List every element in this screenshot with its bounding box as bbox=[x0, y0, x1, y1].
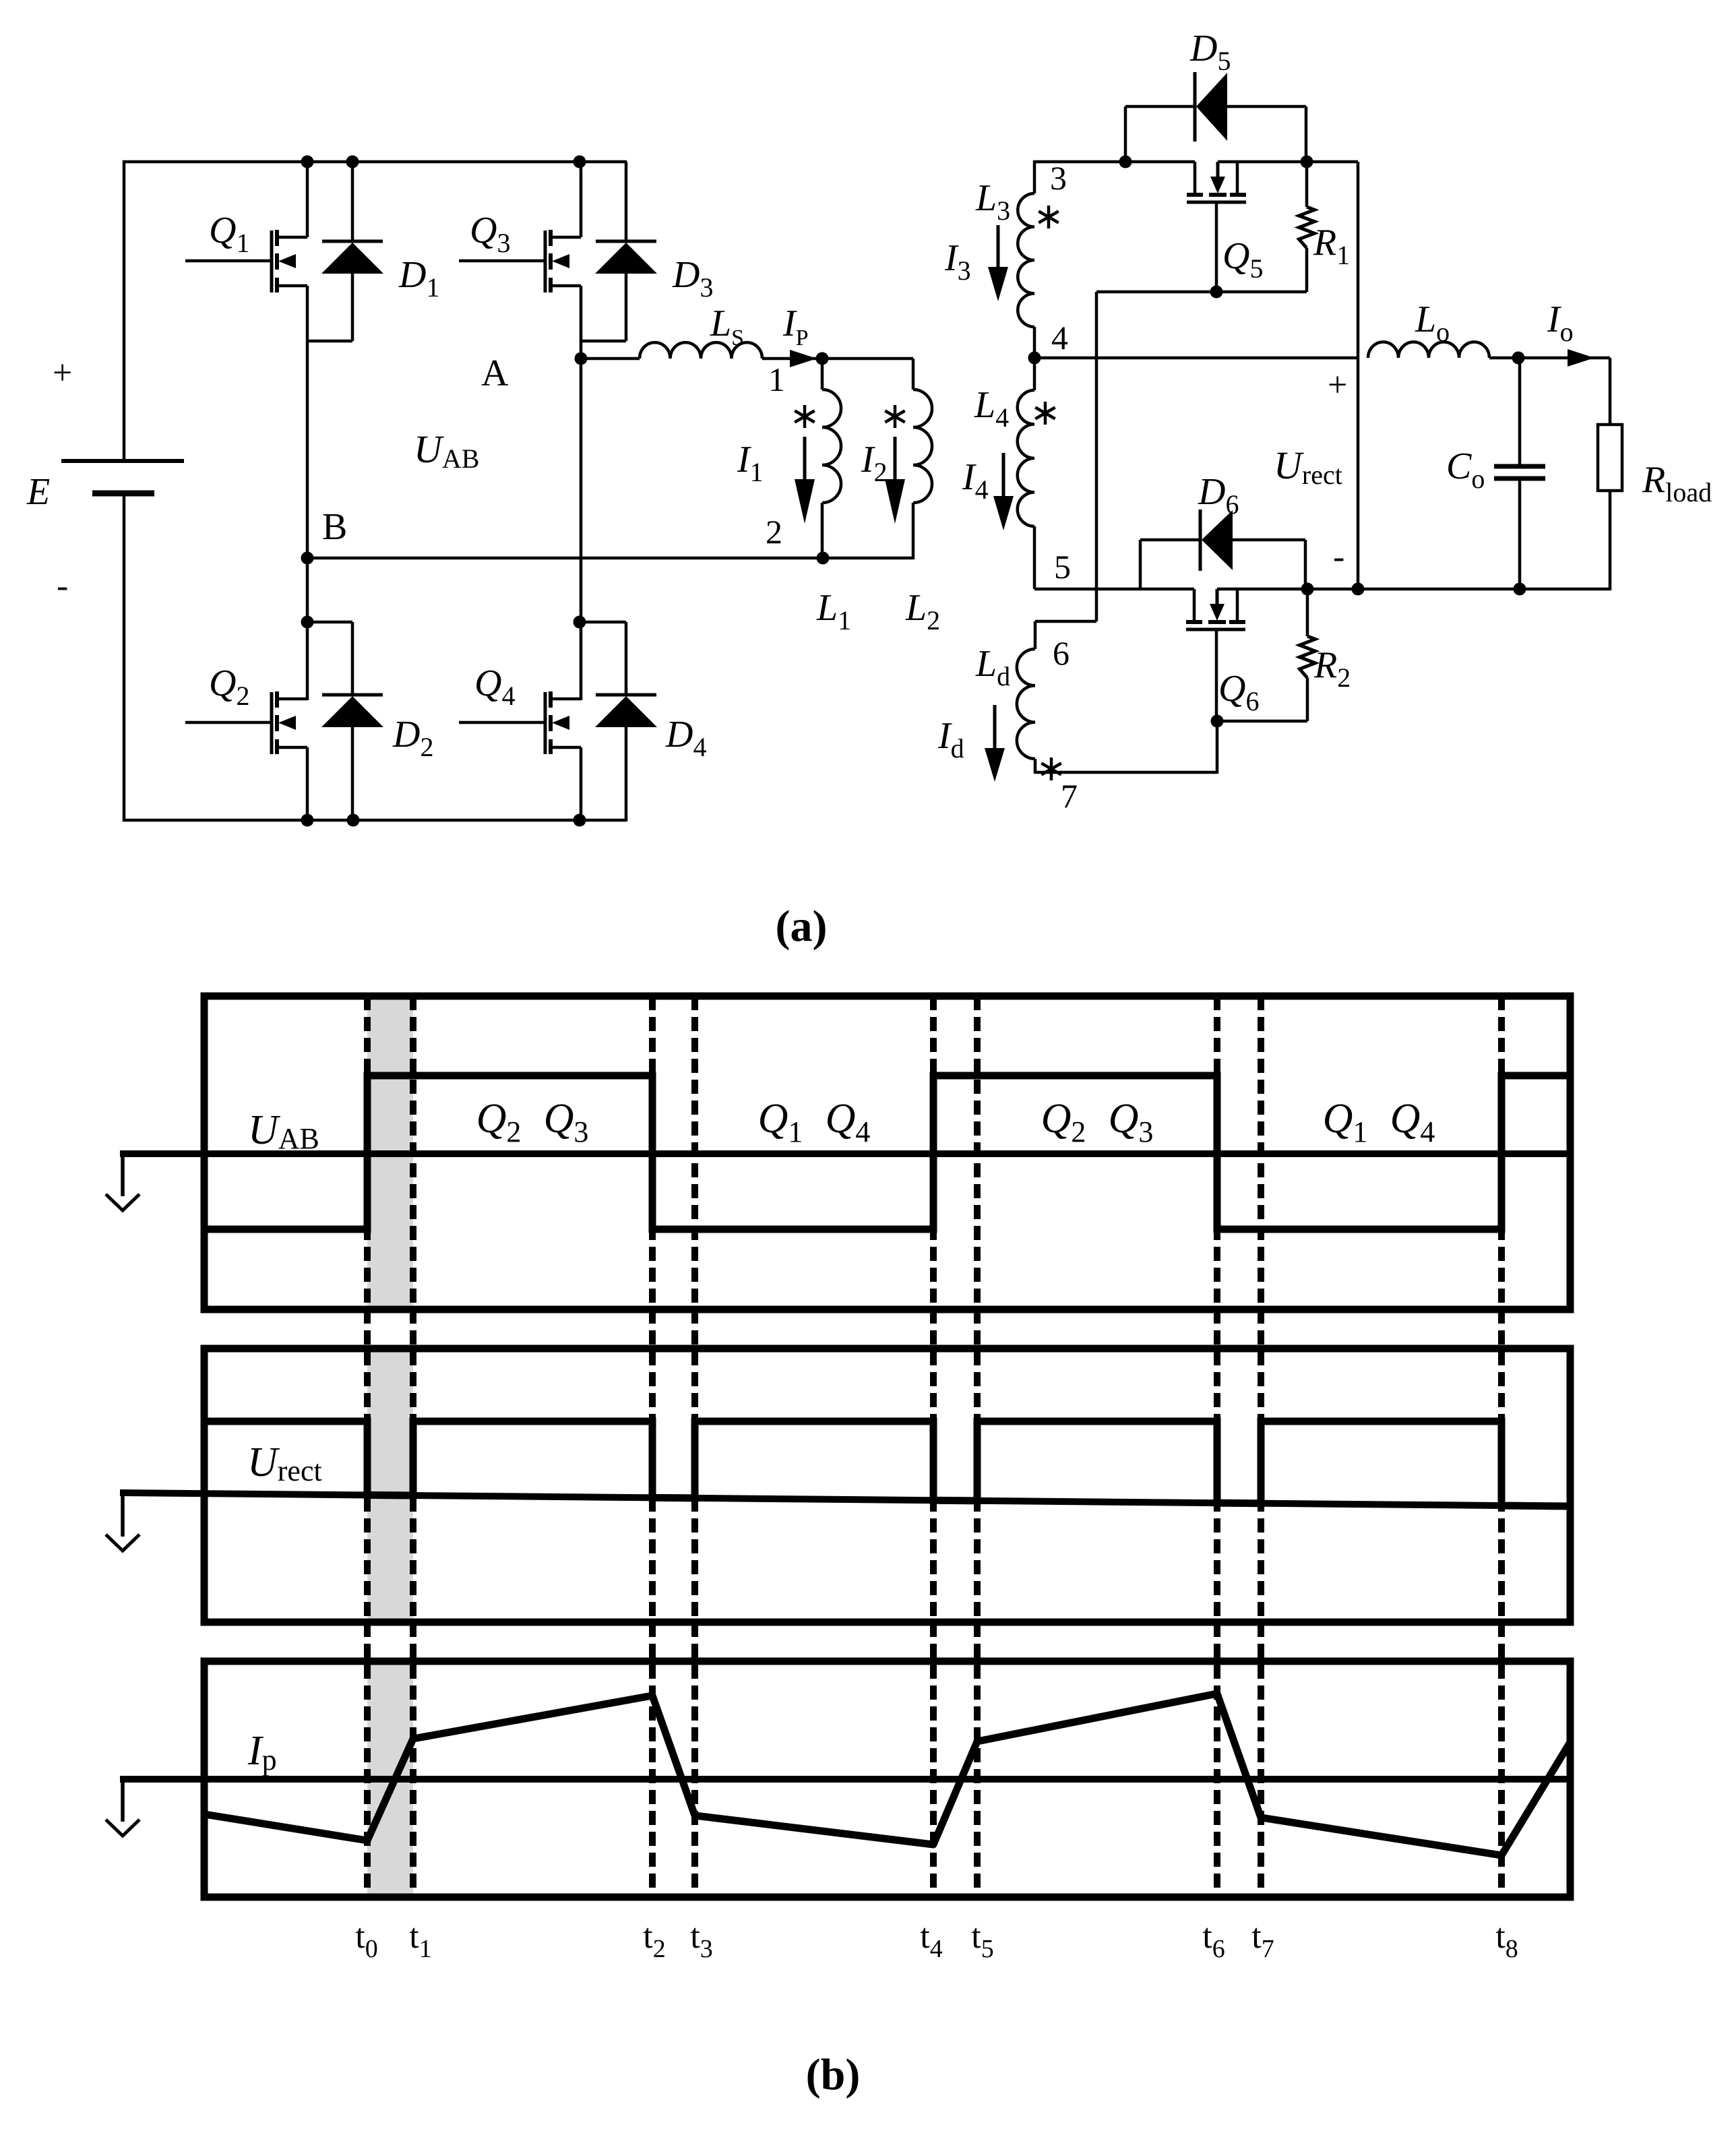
node: Co bottom junction bbox=[1514, 583, 1526, 596]
wire: Q1 drain from top rail bbox=[306, 162, 309, 237]
wire: bottom rail bbox=[123, 819, 626, 822]
waveform UAB bbox=[204, 1076, 1570, 1229]
wire: left rail bottom bbox=[123, 493, 126, 822]
node 2 bbox=[766, 513, 830, 565]
svg-text:7: 7 bbox=[1061, 777, 1078, 815]
current arrow I2 bbox=[861, 437, 905, 524]
inductor Ls bbox=[640, 303, 762, 359]
wire: Q3 source through node A down to Q4 bbox=[580, 286, 583, 700]
box UAB bbox=[204, 996, 1570, 1309]
svg-text:+: + bbox=[53, 354, 72, 392]
wire: Q2 source to bottom rail bbox=[306, 747, 309, 822]
caption (a) bbox=[776, 902, 828, 951]
svg-text:2: 2 bbox=[766, 513, 782, 551]
box Ip bbox=[204, 1661, 1570, 1897]
current arrow I3 bbox=[944, 225, 1008, 301]
dashed time grid lines t0-t8 bbox=[367, 996, 1501, 1897]
node 6 bbox=[1053, 634, 1069, 672]
wire: Q6 gate down to node 7 rail bbox=[1034, 721, 1217, 774]
wire: node A to Ls bbox=[581, 357, 640, 361]
wire: left rail top bbox=[123, 160, 126, 461]
caption (b) bbox=[806, 2050, 861, 2099]
svg-text:-: - bbox=[1333, 538, 1344, 576]
node 5 bbox=[1054, 548, 1071, 586]
polarity mark L3 bbox=[1038, 206, 1058, 228]
polarity mark Ld bbox=[1041, 757, 1061, 780]
current arrow I4 bbox=[962, 453, 1014, 530]
current arrow I1 bbox=[737, 437, 815, 524]
label UAB bbox=[414, 427, 479, 474]
diode D1 bbox=[307, 162, 439, 341]
wire: top rail bbox=[123, 160, 627, 164]
diode D6 bbox=[1140, 471, 1305, 590]
svg-text:B: B bbox=[322, 506, 347, 548]
node: D5 anode junction bbox=[1119, 156, 1132, 168]
current arrow Id bbox=[937, 705, 1005, 782]
svg-text:1: 1 bbox=[768, 361, 785, 398]
node 4 bbox=[1028, 319, 1069, 365]
resistor Rload bbox=[1598, 358, 1712, 590]
diode D4 bbox=[581, 622, 706, 822]
winding L4 bbox=[974, 358, 1034, 589]
time labels t0-t8 bbox=[355, 1917, 1518, 1963]
wire: node 3 rail bbox=[1034, 160, 1195, 164]
diode D3 bbox=[581, 162, 713, 341]
svg-text:3: 3 bbox=[1050, 159, 1067, 197]
transistor Q2 bbox=[185, 662, 307, 754]
wire with Io arrow bbox=[1489, 299, 1610, 367]
node 3 bbox=[1050, 159, 1067, 197]
polarity mark L2 bbox=[885, 405, 904, 428]
winding L1 bbox=[816, 359, 851, 636]
node: R1 top junction bbox=[1301, 156, 1313, 168]
box Urect bbox=[204, 1349, 1570, 1622]
axis UAB with ground bbox=[106, 1154, 1570, 1210]
battery E bbox=[26, 354, 184, 605]
label Q1 Q4 interval 4 bbox=[1323, 1096, 1435, 1148]
label Ip (diagram) bbox=[247, 1728, 277, 1776]
transistor Q6 bbox=[1186, 589, 1259, 721]
winding L3 bbox=[975, 160, 1034, 359]
wire: node 5 rail bbox=[1034, 588, 1194, 591]
diode D5 bbox=[1125, 28, 1306, 163]
node: R2 top junction bbox=[1301, 583, 1314, 596]
polarity mark L4 bbox=[1035, 402, 1055, 425]
label UAB (diagram) bbox=[248, 1107, 319, 1155]
waveform Urect bbox=[204, 1421, 1570, 1506]
svg-text:5: 5 bbox=[1054, 548, 1071, 586]
node A bbox=[481, 352, 588, 395]
label Urect with polarity bbox=[1274, 366, 1347, 576]
label Q2 Q3 interval 1 bbox=[476, 1096, 589, 1148]
wire: node 4 rail to Lo bbox=[1034, 357, 1358, 360]
wire: Q4 source to bottom rail bbox=[580, 747, 583, 822]
node: output minus junction bbox=[1352, 583, 1365, 596]
label Q1 Q4 interval 2 bbox=[758, 1096, 871, 1148]
label Urect (diagram) bbox=[247, 1440, 322, 1487]
svg-text:(a): (a) bbox=[776, 902, 828, 951]
svg-text:-: - bbox=[57, 567, 68, 605]
wire: Q5 drain rail to output corner bbox=[1218, 160, 1358, 164]
svg-text:A: A bbox=[481, 352, 509, 394]
node 7 bbox=[1061, 777, 1078, 815]
svg-text:(b): (b) bbox=[806, 2050, 861, 2099]
node: Q5 gate junction bbox=[1210, 286, 1223, 299]
transistor Q1 bbox=[185, 210, 307, 292]
node 1 bbox=[768, 352, 829, 399]
svg-text:4: 4 bbox=[1051, 319, 1068, 357]
svg-text:+: + bbox=[1328, 366, 1347, 404]
wire: node B rail to transformer bbox=[307, 557, 913, 560]
winding L2 bbox=[905, 359, 940, 636]
shaded interval t0-t1 bbox=[367, 996, 413, 1897]
capacitor Co bbox=[1446, 358, 1545, 589]
wire: Q1 source down to node B and Q2 bbox=[306, 286, 309, 700]
axis Urect with ground bbox=[106, 1493, 1570, 1551]
polarity mark L1 bbox=[795, 405, 814, 428]
wire: rectifier output vertical bbox=[1357, 162, 1360, 589]
wire: Q5 gate line to node 6 bbox=[1096, 292, 1307, 621]
transistor Q4 bbox=[459, 662, 581, 754]
node: Q6 gate junction bbox=[1211, 715, 1224, 728]
wire: node 6 stub bbox=[1035, 620, 1096, 623]
inductor Lo bbox=[1368, 299, 1489, 358]
wire with Ip arrow into node 1 bbox=[762, 303, 824, 367]
label Q2 Q3 interval 3 bbox=[1041, 1096, 1154, 1148]
node B bbox=[301, 506, 348, 565]
svg-text:6: 6 bbox=[1053, 634, 1069, 672]
waveform Ip bbox=[204, 1694, 1570, 1855]
svg-text:E: E bbox=[26, 471, 50, 513]
winding Ld bbox=[975, 621, 1035, 774]
wire: R2 bottom to Q6 gate bbox=[1217, 720, 1307, 723]
transistor Q5 bbox=[1187, 162, 1263, 292]
node: Lo-Co junction bbox=[1512, 352, 1525, 365]
axis Ip with ground bbox=[106, 1779, 1570, 1836]
transistor Q3 bbox=[459, 210, 581, 292]
wire: node1 to L2 top bbox=[822, 357, 913, 361]
wire: Q3 drain from top rail bbox=[580, 162, 583, 237]
resistor R1 bbox=[1299, 162, 1351, 292]
wire: Q6 drain rail (output minus rail) bbox=[1217, 588, 1610, 591]
resistor R2 bbox=[1300, 589, 1351, 721]
diode D2 bbox=[307, 622, 433, 822]
junction dots on rails bbox=[301, 156, 586, 827]
